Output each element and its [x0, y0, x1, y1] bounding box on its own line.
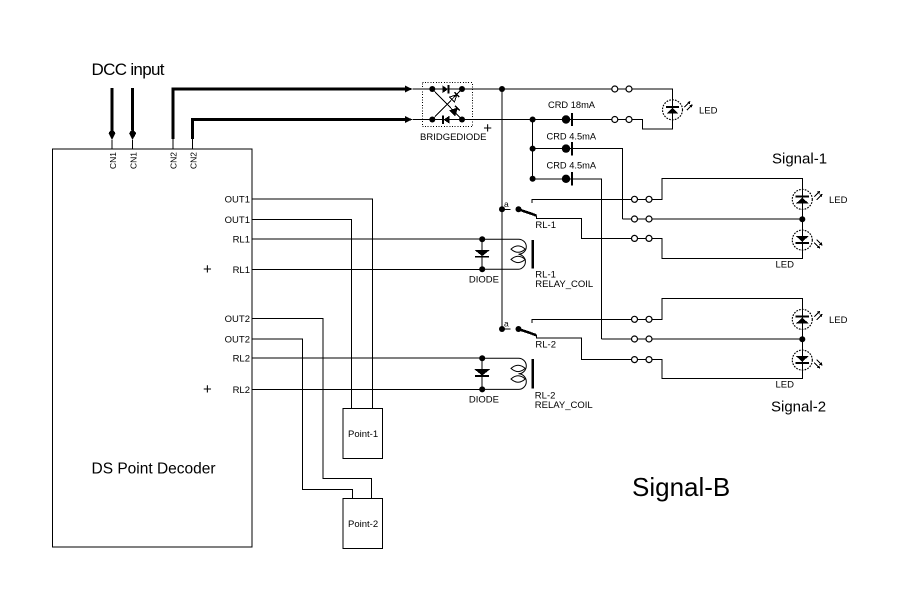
- DCC input arrow 2 (CN1): [129, 88, 136, 149]
- terminal circles row2: [612, 117, 632, 123]
- svg-text:BRIDGEDIODE: BRIDGEDIODE: [420, 132, 487, 143]
- svg-text:a: a: [504, 319, 509, 329]
- svg-text:CRD 4.5mA: CRD 4.5mA: [547, 161, 597, 171]
- decoder U1 box DS Point Decoder: [53, 149, 253, 547]
- wire terminals to LED1 top: [632, 89, 673, 100]
- svg-text:+: +: [203, 381, 212, 398]
- relay coil RL-2: [252, 358, 533, 389]
- wire terminals to LED1 bottom: [632, 120, 673, 129]
- LED signal2 green: [792, 309, 822, 350]
- svg-text:RELAY_COIL: RELAY_COIL: [535, 400, 593, 411]
- svg-text:CRD 18mA: CRD 18mA: [548, 100, 596, 110]
- DCC input arrow 1 (CN1): [109, 88, 116, 149]
- relay contact RL-1 switch: [499, 206, 536, 215]
- junction signal2 LEDs: [799, 336, 805, 342]
- terminal circles signal2 row2: [602, 336, 652, 342]
- wire signal1 row2 to LED junction: [652, 218, 803, 220]
- diode D6 flyback RL2: [474, 355, 490, 392]
- wire signal2 row1 to LED top: [652, 299, 803, 320]
- wire OUT1a to Point-1: [252, 199, 372, 408]
- svg-text:Signal-1: Signal-1: [772, 151, 827, 168]
- wire bridge top output to terminal pair: [462, 88, 612, 90]
- diode D5 flyback RL1: [474, 236, 490, 272]
- svg-text:CN1: CN1: [108, 152, 118, 169]
- wire CRD2 to signal2 middle: [591, 179, 602, 339]
- svg-text:RELAY_COIL: RELAY_COIL: [535, 279, 593, 290]
- wire signal1 row1 to LED top: [652, 179, 803, 200]
- wire switch RL-1 to signal1 row3: [536, 216, 632, 239]
- svg-text:a: a: [504, 199, 509, 209]
- wire signal1 row3 to LED bottom: [652, 238, 803, 258]
- svg-text:LED: LED: [699, 105, 718, 116]
- svg-text:LED: LED: [829, 195, 848, 206]
- svg-text:CRD 4.5mA: CRD 4.5mA: [547, 132, 597, 142]
- svg-text:Signal-B: Signal-B: [632, 472, 730, 502]
- LED signal2 red: [792, 350, 822, 370]
- junction at x502 top rail: [499, 86, 505, 92]
- Point-2 box: [343, 498, 383, 548]
- relay contact RL-2 switch: [499, 326, 536, 335]
- svg-text:+: +: [483, 120, 492, 137]
- wire switch RL-2 to signal2 row3: [536, 335, 632, 359]
- svg-text:OUT2: OUT2: [225, 334, 250, 345]
- svg-text:CN2: CN2: [168, 152, 178, 169]
- svg-text:Point-2: Point-2: [348, 519, 378, 530]
- svg-text:CN1: CN1: [129, 152, 139, 169]
- svg-text:LED: LED: [776, 259, 795, 270]
- junction CRD2: [530, 176, 536, 182]
- LED LED1 top indicator: [663, 100, 693, 120]
- CRD D3 4.5mA: [533, 142, 612, 155]
- svg-text:LED: LED: [776, 379, 795, 390]
- wire CN2a thick to bridge: [173, 86, 432, 149]
- svg-text:OUT1: OUT1: [225, 215, 250, 226]
- wire signal2 row1 from contact b stub: [532, 319, 632, 323]
- wire common feed to relay switches: [501, 89, 503, 329]
- CRD D2 18mA: [562, 113, 572, 126]
- svg-text:DIODE: DIODE: [469, 395, 499, 406]
- wire OUT2a to Point-2: [252, 319, 371, 499]
- wire OUT1b to Point-1: [252, 219, 352, 408]
- svg-text:LED: LED: [829, 315, 848, 326]
- svg-text:Point-1: Point-1: [348, 429, 378, 440]
- svg-text:RL1: RL1: [233, 235, 250, 246]
- wire bridge bottom output row: [462, 119, 612, 121]
- svg-text:OUT1: OUT1: [225, 195, 250, 206]
- wire CRD1 to signal1 middle: [612, 149, 623, 219]
- svg-text:OUT2: OUT2: [225, 314, 250, 325]
- svg-text:DS Point Decoder: DS Point Decoder: [92, 461, 216, 478]
- svg-text:Signal-2: Signal-2: [771, 399, 826, 416]
- svg-text:RL2: RL2: [233, 385, 250, 396]
- relay coil RL-1: [252, 239, 533, 269]
- svg-text:RL-1: RL-1: [535, 220, 556, 231]
- svg-text:RL-2: RL-2: [535, 340, 556, 351]
- terminal circles CN top row: [612, 86, 632, 92]
- svg-text:RL1: RL1: [233, 265, 250, 276]
- junction CRD feed: [530, 117, 536, 123]
- svg-text:CN2: CN2: [188, 152, 198, 169]
- wire signal2 row2 to LED junction: [652, 338, 803, 340]
- svg-text:+: +: [203, 261, 212, 278]
- CRD D4 4.5mA: [533, 172, 591, 185]
- terminal circles signal1 row2: [623, 216, 652, 222]
- svg-text:DIODE: DIODE: [469, 275, 499, 286]
- terminal circles signal1 row3: [632, 235, 653, 241]
- junction CRD1: [530, 146, 536, 152]
- svg-text:DCC input: DCC input: [92, 60, 165, 79]
- wire signal1 row1 from contact b stub: [532, 199, 632, 203]
- bridge rectifier D1 BRIDGEDIODE: [422, 83, 472, 127]
- LED signal1 red: [792, 230, 822, 250]
- junction signal1 LEDs: [799, 216, 805, 222]
- wire OUT2b to Point-2: [252, 339, 353, 499]
- CRD feed vertical wire: [532, 120, 534, 179]
- terminal circles signal2 row1: [632, 316, 653, 322]
- svg-text:RL2: RL2: [233, 354, 250, 365]
- wire signal2 row3 to LED bottom: [652, 360, 803, 379]
- Point-1 box: [343, 408, 383, 458]
- terminal circles signal1 row1: [632, 196, 653, 202]
- terminal circles signal2 row3: [632, 357, 653, 363]
- LED signal1 green: [792, 189, 822, 230]
- wire CN2b thick to bridge: [192, 116, 432, 149]
